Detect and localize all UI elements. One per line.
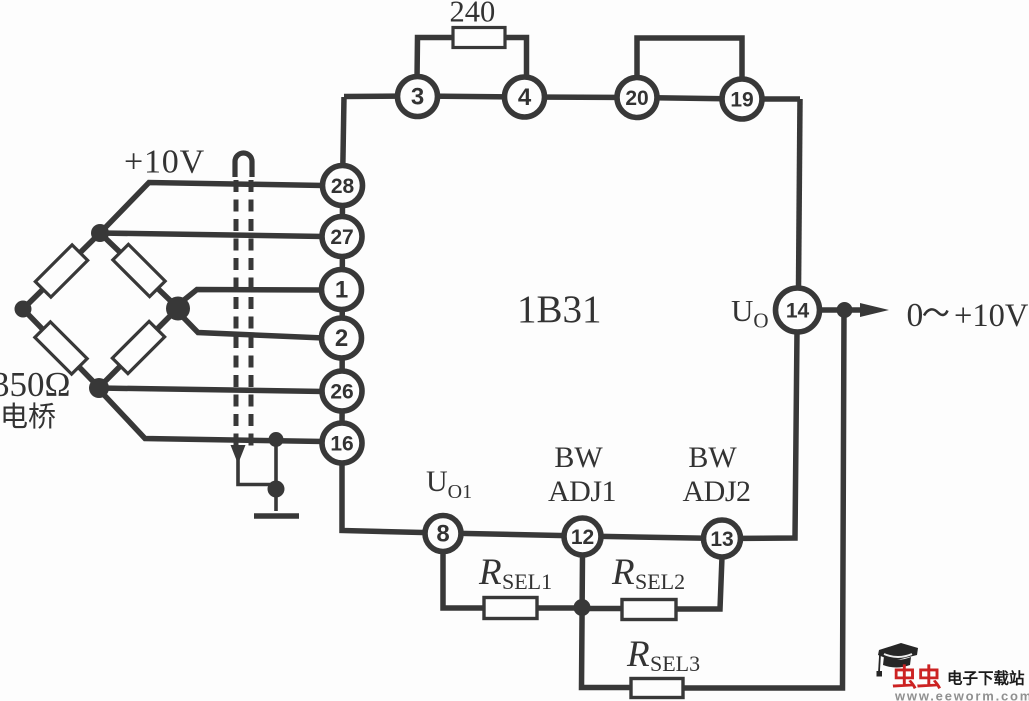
wire bridge bottom node to pin 26	[99, 388, 324, 392]
svg-text:13: 13	[710, 528, 733, 551]
svg-text:UO: UO	[731, 293, 769, 333]
svg-text:R: R	[626, 634, 650, 675]
wire output junction down to R_SEL3	[683, 310, 844, 688]
svg-text:R: R	[611, 552, 635, 593]
wire R_SEL2 right lead up to pin13	[676, 557, 722, 609]
svg-text:1: 1	[335, 277, 348, 304]
svg-text:1B31: 1B31	[517, 288, 602, 331]
bridge resistor top-left arm	[35, 245, 87, 297]
svg-text:SEL2: SEL2	[635, 569, 685, 594]
svg-text:BW: BW	[688, 441, 737, 474]
wire top bus pins 3-4-20-19	[344, 96, 800, 99]
svg-text:20: 20	[625, 87, 648, 110]
bridge arm top-left	[23, 233, 100, 309]
node pin16-wire ground junction dot	[269, 432, 284, 447]
wire right vertical bus from top to pin 14	[799, 99, 801, 289]
svg-text:ADJ2: ADJ2	[682, 475, 750, 508]
wire pin14 to output arrow	[818, 307, 868, 313]
bridge resistor bottom-right arm	[112, 321, 164, 373]
wire bridge top node to pin 28 (+10V)	[100, 183, 324, 234]
svg-text:ADJ1: ADJ1	[548, 475, 616, 508]
shield drain arrowhead	[231, 445, 246, 464]
svg-text:28: 28	[331, 175, 355, 198]
resistor R_SEL2 body	[622, 600, 676, 620]
shield drain wire to ground	[238, 458, 276, 485]
svg-text:UO1: UO1	[426, 465, 472, 503]
svg-text:8: 8	[436, 521, 449, 548]
wire jumper pin20 to pin19	[637, 38, 742, 82]
wire bridge right node to pin 1	[179, 290, 324, 305]
pin 14	[776, 288, 820, 332]
shield cable dashed line left	[234, 180, 239, 452]
ground symbol bar	[254, 513, 299, 519]
shield cable dashed line right	[249, 180, 254, 446]
svg-text:2: 2	[335, 325, 348, 352]
pin 1	[322, 270, 362, 310]
node bridge left junction dot	[15, 301, 32, 318]
svg-text:+10V: +10V	[124, 144, 205, 181]
svg-text:SEL1: SEL1	[502, 569, 552, 594]
wire R_SEL2 leads	[582, 606, 623, 612]
pin 2	[322, 318, 362, 358]
bridge arm bottom-right	[99, 308, 178, 388]
pin 13	[704, 520, 741, 557]
svg-text:19: 19	[730, 89, 753, 112]
wire R_SEL1 to center junction	[537, 605, 582, 611]
svg-text:12: 12	[571, 526, 594, 549]
wire pin28 to top-left corner up to pin3	[343, 97, 345, 186]
wire pin8 stub down to R_SEL1	[443, 551, 484, 608]
node bridge bottom junction dot	[89, 378, 109, 398]
wire bridge right node to pin 2	[179, 313, 324, 338]
svg-text:4: 4	[518, 84, 532, 111]
resistor 240 left lead	[417, 38, 453, 81]
pin 4	[505, 77, 545, 117]
svg-text:27: 27	[330, 226, 353, 249]
svg-text:14: 14	[786, 300, 810, 323]
svg-text:R: R	[478, 552, 502, 593]
resistor 240 right lead	[505, 38, 527, 81]
pin 26	[322, 371, 362, 411]
node bridge right junction dot	[166, 297, 190, 321]
svg-text:16: 16	[330, 433, 353, 456]
bridge resistor top-right arm	[113, 244, 165, 296]
node RSEL center junction dot	[574, 599, 591, 616]
wire bottom bus pin16 to pins 8-12-13	[342, 443, 722, 539]
bridge resistor bottom-left arm	[35, 322, 87, 374]
wire pin12 stub down through junction to R_SEL3	[582, 555, 632, 688]
node shield drain ground junction dot	[268, 481, 285, 498]
wire bridge top node to pin 27	[100, 233, 324, 237]
pin 20	[617, 78, 657, 118]
svg-text:电桥: 电桥	[0, 401, 56, 433]
node output junction dot	[837, 302, 853, 318]
resistor R_SEL3 body	[631, 679, 683, 698]
pin 3	[398, 77, 438, 117]
svg-text:26: 26	[330, 381, 353, 404]
svg-text:0: 0	[907, 297, 924, 334]
wire pin14 bottom to bottom bus to pin13	[722, 331, 797, 539]
pin 12	[564, 518, 601, 555]
node bridge top junction dot	[91, 224, 109, 242]
resistor 240 body	[453, 28, 505, 48]
pin 27	[322, 217, 362, 257]
watermark graduation cap	[877, 643, 919, 677]
shield cable loop top	[235, 153, 252, 177]
svg-text:电子下载站: 电子下载站	[947, 669, 1025, 688]
pin 19	[722, 79, 762, 119]
pin 8	[425, 516, 461, 552]
wire ground vertical from pin16 wire	[274, 440, 278, 511]
svg-text:240: 240	[450, 0, 496, 29]
resistor R_SEL1 body	[484, 598, 537, 619]
wire bridge bottom node to pin 16	[99, 390, 324, 442]
pin 16	[322, 423, 362, 463]
wire left pin chain 28-27-1-2-26-16	[339, 186, 345, 443]
svg-text:www.eeworm.com: www.eeworm.com	[894, 689, 1029, 701]
bridge arm bottom-left	[23, 309, 99, 388]
bridge arm top-right	[100, 233, 178, 308]
svg-text:BW: BW	[554, 441, 603, 474]
svg-text:350Ω: 350Ω	[0, 365, 71, 404]
pin 28	[323, 166, 363, 206]
svg-text:SEL3: SEL3	[650, 651, 700, 676]
output arrowhead	[860, 303, 889, 317]
svg-text:+10V: +10V	[954, 298, 1029, 334]
svg-text:3: 3	[411, 84, 424, 111]
